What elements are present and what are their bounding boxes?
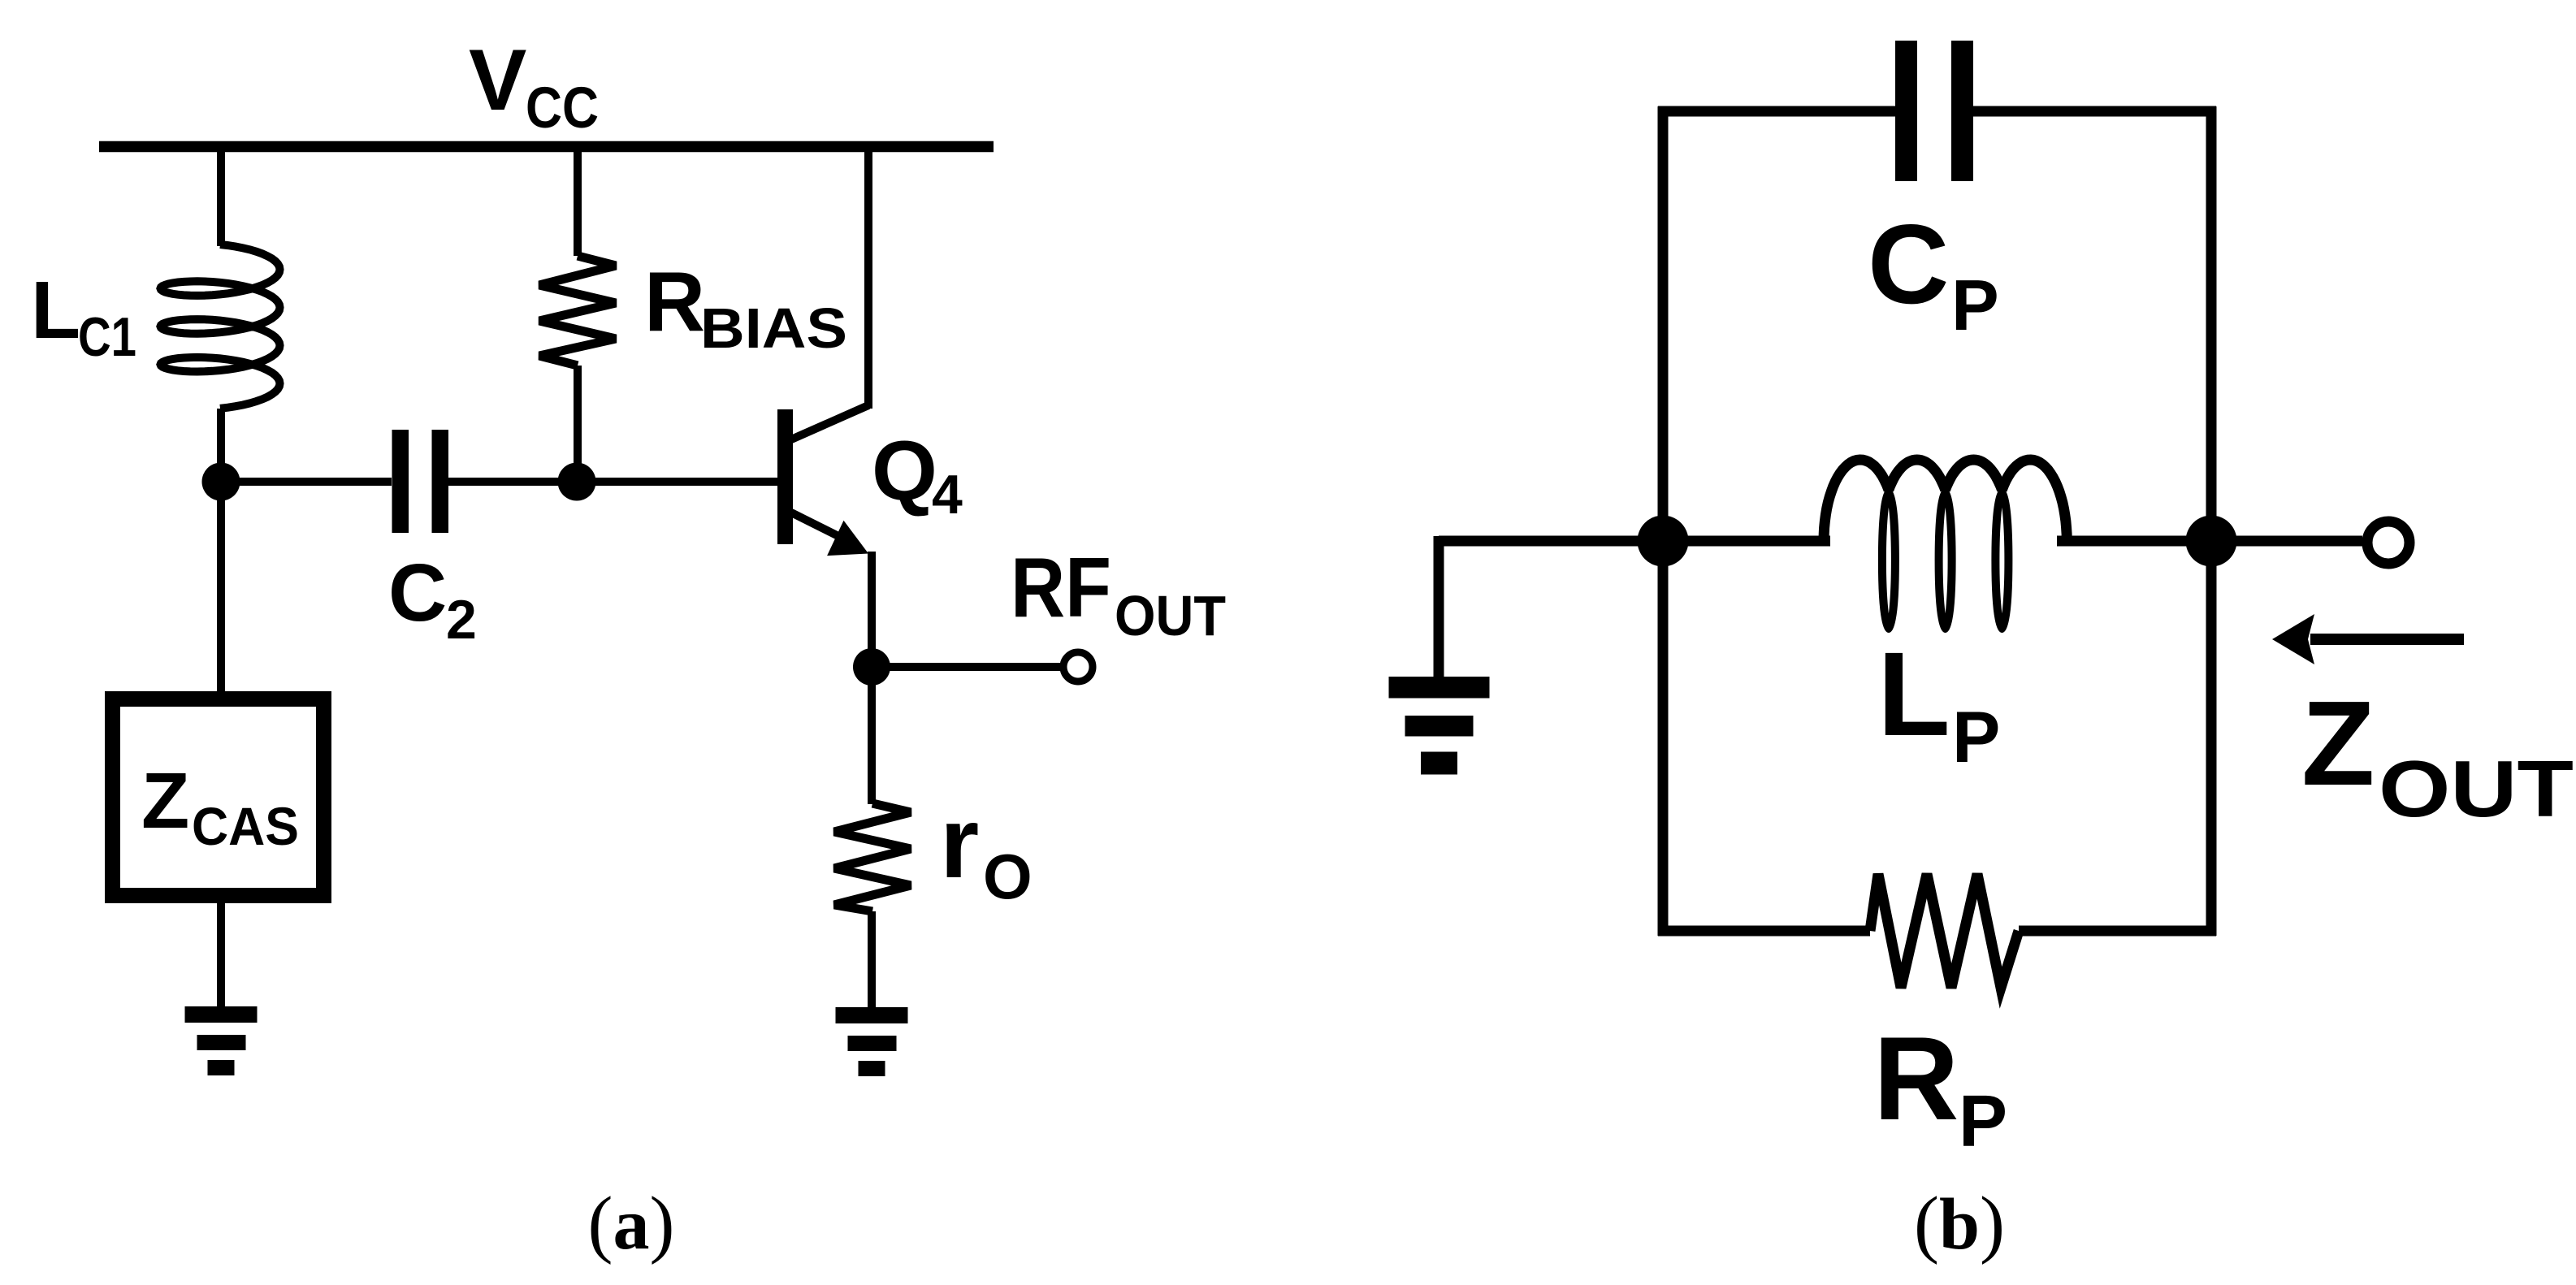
svg-text:2: 2 xyxy=(446,589,477,651)
svg-text:OUT: OUT xyxy=(2379,744,2574,833)
svg-text:RF: RF xyxy=(1011,541,1111,635)
svg-text:C: C xyxy=(388,547,447,638)
svg-text:(b): (b) xyxy=(1914,1182,2005,1266)
svg-text:O: O xyxy=(983,841,1033,912)
svg-text:P: P xyxy=(1952,696,2000,777)
svg-text:C1: C1 xyxy=(78,306,136,368)
svg-text:R: R xyxy=(644,255,705,349)
svg-text:r: r xyxy=(940,787,979,899)
svg-text:P: P xyxy=(1959,1081,2007,1162)
svg-text:P: P xyxy=(1951,265,1999,345)
svg-text:(a): (a) xyxy=(588,1182,675,1266)
svg-text:L: L xyxy=(1877,628,1950,761)
svg-text:CC: CC xyxy=(526,76,599,141)
svg-text:OUT: OUT xyxy=(1115,584,1226,647)
svg-text:Z: Z xyxy=(141,756,189,845)
svg-text:L: L xyxy=(31,265,80,356)
svg-text:Z: Z xyxy=(2301,677,2375,811)
svg-text:V: V xyxy=(469,31,526,128)
svg-text:BIAS: BIAS xyxy=(700,296,847,360)
svg-text:CAS: CAS xyxy=(192,796,299,856)
svg-text:C: C xyxy=(1868,201,1949,327)
svg-text:4: 4 xyxy=(932,464,963,526)
svg-text:R: R xyxy=(1873,1012,1959,1144)
svg-text:Q: Q xyxy=(872,424,937,518)
